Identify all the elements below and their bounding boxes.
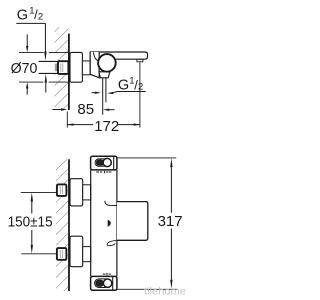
connector neck (side view)	[82, 61, 90, 75]
wall hatched strip (side view)	[55, 27, 69, 110]
wall face line (front view)	[68, 159, 70, 291]
escutcheon 1 (front view)	[70, 179, 83, 206]
pipe thread ticks (side view)	[55, 64, 56, 72]
wall face line (side view)	[68, 34, 70, 110]
aerator mark (front view)	[108, 220, 111, 227]
svg-text:Ø70: Ø70	[11, 61, 38, 77]
handle box top (front view)	[91, 156, 117, 170]
svg-text:172: 172	[94, 118, 119, 135]
svg-text:85: 85	[77, 101, 94, 118]
scale ticks above bottom handle (front view)	[103, 273, 111, 276]
dimension 172	[67, 62, 140, 135]
union nut 2 (front view)	[57, 248, 67, 260]
svg-text:150±15: 150±15	[8, 215, 53, 231]
scale ticks below top handle (front view)	[96, 171, 111, 174]
svg-text:G: G	[17, 8, 28, 24]
thermostat knob circle (side view)	[98, 54, 116, 72]
body/knob notch (side view)	[93, 52, 99, 61]
escutcheon 2 (front view)	[70, 236, 83, 267]
svg-text:2: 2	[38, 12, 43, 23]
spout (side view)	[90, 52, 147, 59]
spout outlet (side view)	[137, 59, 143, 61]
label G 1/2 (top)	[16, 6, 47, 93]
handle grip pill top (front view)	[95, 158, 111, 166]
dimension Ø70	[11, 34, 70, 94]
faucet body sides (front view)	[91, 170, 117, 277]
neck 2 (front view)	[83, 247, 91, 262]
union nut 1 (front view)	[57, 184, 67, 196]
handle grip pill bottom (front view)	[95, 279, 112, 288]
escutcheon (side view)	[70, 52, 82, 82]
dimension 317	[117, 158, 183, 289]
union nut (side view)	[58, 61, 68, 74]
handle box bottom (front view)	[91, 276, 117, 290]
dimension 150±15	[8, 192, 57, 253]
label G 1/2 (middle)	[92, 76, 146, 95]
spout top curl (front view)	[105, 201, 117, 206]
supply pipe in wall (side view)	[39, 61, 59, 73]
svg-text:tilehome: tilehome	[144, 286, 186, 298]
faucet body (side view)	[90, 52, 99, 78]
wall hatched strip (front view)	[56, 159, 68, 291]
spout bottom curl (front view)	[107, 241, 116, 246]
shower outlet pipe (side view)	[103, 78, 106, 115]
svg-text:317: 317	[158, 213, 183, 230]
diverter trapezoid under knob (side view)	[99, 72, 110, 78]
dimension 85	[52, 101, 114, 118]
neck 1 (front view)	[83, 185, 91, 200]
spout block (front view)	[117, 202, 148, 241]
